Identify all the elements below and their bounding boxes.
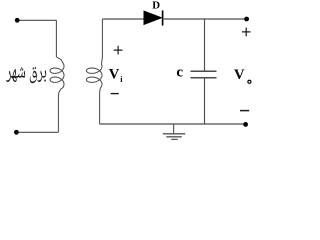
ground bar 1 [163,133,185,135]
node output plus terminal [244,17,249,22]
wire capacitor top lead [204,19,206,71]
wire capacitor bottom lead [204,78,206,124]
node bottom-left input terminal [14,130,19,135]
label plus secondary [114,46,123,55]
svg-text:D: D [152,0,160,12]
capacitor C bottom plate [191,77,217,79]
label plus output [242,28,251,37]
wire bottom-left horizontal [16,131,58,133]
svg-text:V: V [234,67,245,83]
label mains barq-shahr [6,67,46,83]
ground stem [173,124,175,134]
diode D1 [144,11,162,25]
wire diode to output node [163,18,247,20]
ground bar 2 [166,136,182,138]
wire top-left horizontal [17,19,56,21]
svg-text:i: i [120,75,123,84]
wire bottom right rail [100,123,246,125]
transformer primary L1 [50,20,64,132]
capacitor C top plate [191,70,217,72]
svg-text:c: c [176,64,183,80]
node top-left input terminal [15,18,20,23]
label minus secondary [111,93,119,95]
wire secondary top to diode [102,18,144,20]
label minus output [240,110,249,112]
diode D1 cathode bar [162,10,164,25]
ground bar 3 [171,138,177,140]
node output minus terminal [243,122,248,127]
transformer secondary L2 [86,19,102,124]
svg-text:V: V [109,67,120,83]
